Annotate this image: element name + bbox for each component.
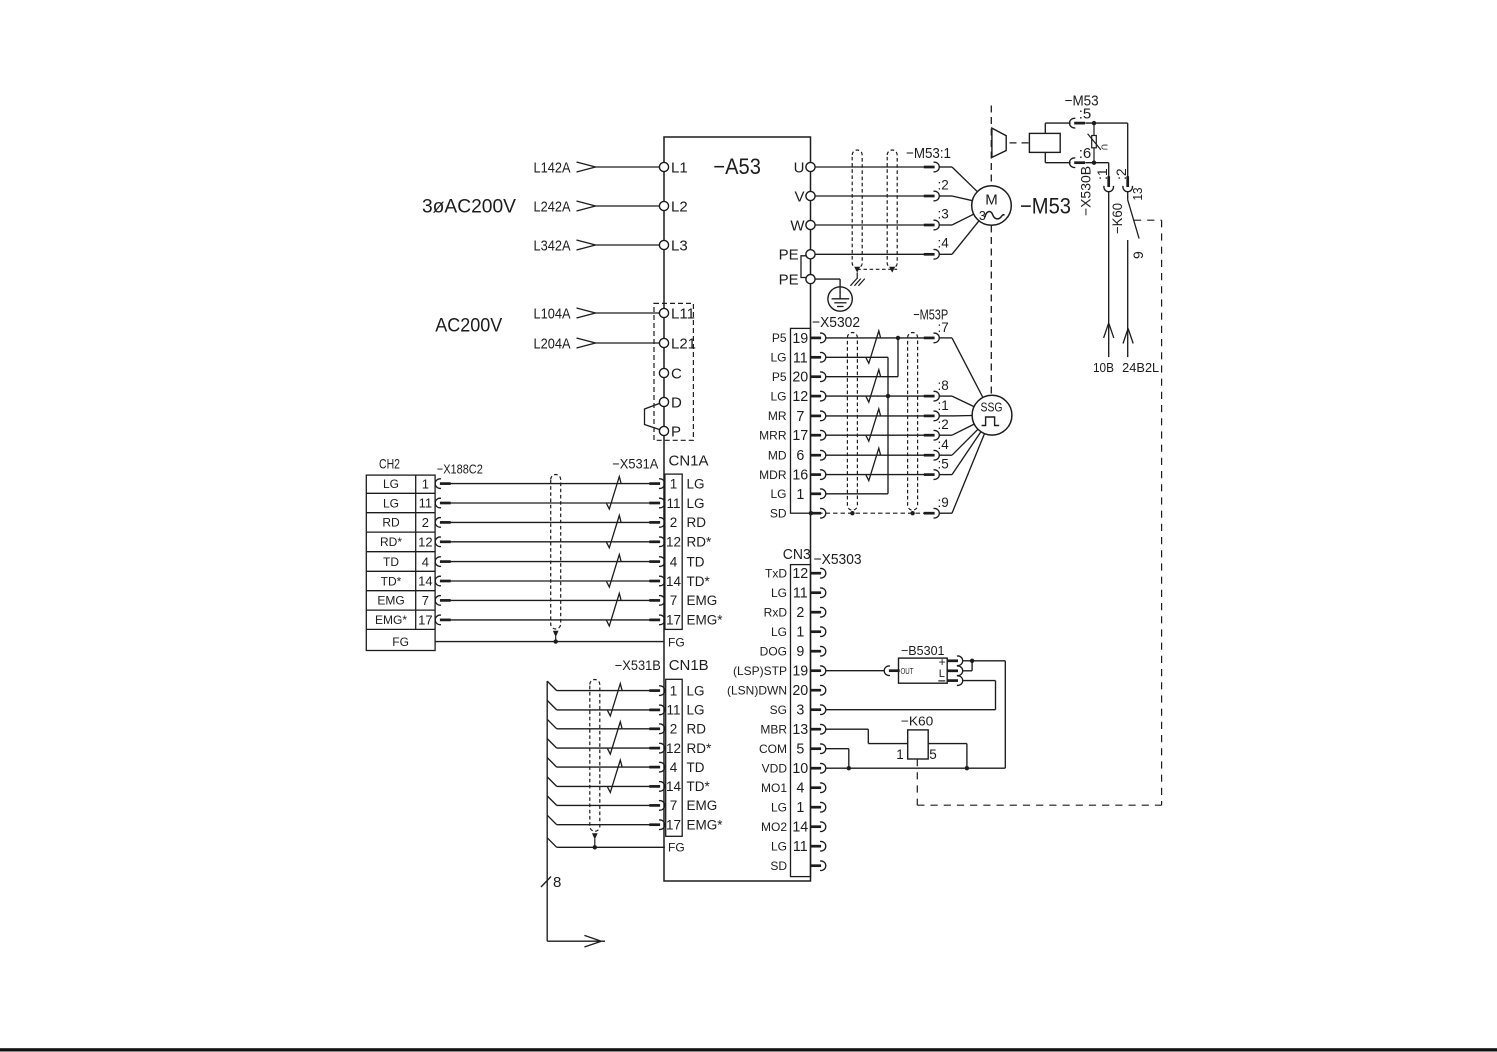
svg-text:RD: RD (687, 722, 707, 737)
svg-text:7: 7 (422, 593, 429, 608)
svg-text:FG: FG (668, 636, 685, 650)
svg-text:7: 7 (796, 409, 804, 425)
svg-text:11: 11 (666, 496, 680, 511)
svg-text::6: :6 (1079, 145, 1092, 162)
svg-text:LG: LG (383, 496, 399, 510)
svg-text:1: 1 (796, 487, 804, 503)
svg-text:12: 12 (792, 389, 808, 405)
svg-text:EMG: EMG (377, 594, 404, 608)
svg-text:L: L (939, 668, 945, 680)
svg-text:20: 20 (792, 370, 808, 386)
svg-text:TD*: TD* (381, 574, 402, 588)
svg-text:−X530B: −X530B (1078, 166, 1094, 216)
svg-text:10: 10 (792, 761, 808, 777)
svg-text:4: 4 (670, 760, 678, 775)
svg-text:3: 3 (796, 703, 804, 719)
svg-text:MRR: MRR (759, 428, 787, 442)
svg-text:−M53: −M53 (1020, 194, 1071, 219)
svg-text:SSG: SSG (981, 401, 1003, 415)
svg-text:9: 9 (1130, 251, 1146, 259)
svg-text:EMG: EMG (687, 798, 718, 813)
svg-text::5: :5 (1079, 106, 1092, 123)
svg-text:L21: L21 (671, 335, 696, 352)
svg-text:MDR: MDR (759, 468, 787, 482)
svg-text:11: 11 (793, 839, 808, 855)
svg-text:M: M (985, 192, 998, 209)
svg-text:19: 19 (792, 331, 808, 347)
svg-text:LG: LG (770, 351, 786, 365)
svg-text:LG: LG (687, 703, 705, 718)
svg-text:RD*: RD* (687, 535, 712, 550)
svg-text:7: 7 (670, 593, 678, 608)
svg-text:17: 17 (418, 613, 432, 628)
svg-text:LG: LG (770, 487, 786, 501)
svg-text:L204A: L204A (534, 336, 571, 353)
svg-text:P5: P5 (772, 370, 787, 384)
svg-text:VDD: VDD (762, 761, 788, 775)
svg-text:RD: RD (382, 516, 400, 530)
svg-text::1: :1 (1094, 168, 1110, 180)
svg-text:5: 5 (929, 747, 937, 762)
svg-text:SD: SD (770, 506, 787, 520)
svg-text:LG: LG (383, 477, 399, 491)
svg-text:L104A: L104A (534, 306, 571, 323)
svg-text:14: 14 (666, 779, 682, 794)
svg-text::4: :4 (938, 236, 950, 251)
svg-text:RD: RD (687, 515, 707, 530)
svg-text:CN1B: CN1B (669, 657, 709, 674)
svg-text:−X5302: −X5302 (812, 314, 860, 331)
svg-text:(LSP)STP: (LSP)STP (733, 664, 787, 678)
svg-text:LG: LG (771, 839, 787, 853)
svg-text:LG: LG (687, 496, 705, 511)
svg-text:L342A: L342A (534, 238, 571, 255)
svg-text:V: V (794, 188, 804, 205)
svg-text:11: 11 (793, 586, 808, 602)
svg-text:CN1A: CN1A (669, 453, 709, 470)
svg-text:EMG: EMG (687, 593, 718, 608)
svg-text:4: 4 (670, 554, 678, 569)
svg-text:MO1: MO1 (761, 781, 787, 795)
svg-text:14: 14 (418, 574, 432, 589)
svg-text:11: 11 (793, 350, 808, 366)
svg-text:L2: L2 (671, 198, 688, 215)
svg-text:LG: LG (771, 586, 787, 600)
svg-text:24B2L: 24B2L (1122, 361, 1159, 375)
svg-text:MR: MR (768, 409, 787, 423)
svg-text:14: 14 (792, 820, 808, 836)
svg-text:P: P (671, 423, 681, 440)
svg-text::5: :5 (938, 457, 949, 472)
svg-text:−X5303: −X5303 (814, 551, 862, 568)
svg-text:−X531B: −X531B (615, 657, 661, 673)
svg-text:2: 2 (422, 515, 429, 530)
svg-text:17: 17 (666, 818, 681, 833)
svg-text:8: 8 (553, 874, 561, 891)
svg-text:−M53P: −M53P (913, 307, 948, 324)
svg-text:1: 1 (796, 800, 804, 816)
svg-text:12: 12 (418, 535, 432, 550)
svg-text:SG: SG (770, 703, 787, 717)
svg-text:−M53:1: −M53:1 (906, 145, 951, 162)
svg-text:10B: 10B (1093, 361, 1114, 375)
svg-text:1: 1 (796, 625, 804, 641)
svg-text:TD: TD (687, 760, 705, 775)
svg-text:MBR: MBR (760, 722, 787, 736)
svg-text:FG: FG (668, 841, 685, 855)
svg-text:MD: MD (768, 448, 787, 462)
svg-text:11: 11 (419, 496, 433, 511)
svg-text:7: 7 (670, 798, 678, 813)
svg-text:U: U (1100, 144, 1110, 150)
svg-text:D: D (671, 394, 682, 411)
svg-text:PE: PE (779, 247, 799, 264)
svg-text:RxD: RxD (764, 605, 788, 619)
svg-text:OUT: OUT (901, 666, 914, 676)
svg-text:CN3: CN3 (783, 546, 811, 563)
svg-text:4: 4 (422, 554, 429, 569)
svg-text:P5: P5 (772, 331, 787, 345)
svg-text:2: 2 (796, 605, 804, 621)
svg-text:19: 19 (792, 664, 808, 680)
svg-text:20: 20 (792, 683, 808, 699)
svg-text:1: 1 (422, 476, 429, 491)
svg-text:FG: FG (392, 635, 409, 649)
svg-text:1: 1 (896, 747, 904, 762)
svg-text:RD*: RD* (380, 535, 402, 549)
svg-text::8: :8 (938, 378, 949, 393)
svg-text:TD: TD (383, 555, 399, 569)
svg-text:4: 4 (796, 781, 804, 797)
svg-text:TxD: TxD (765, 566, 787, 580)
svg-text:AC200V: AC200V (435, 314, 502, 336)
svg-text:L142A: L142A (534, 160, 571, 177)
svg-text:RD*: RD* (687, 741, 712, 756)
svg-text:TD: TD (687, 554, 705, 569)
svg-text:12: 12 (666, 741, 681, 756)
svg-text:LG: LG (687, 476, 705, 491)
svg-text:16: 16 (792, 468, 808, 484)
svg-text:COM: COM (759, 742, 787, 756)
svg-text:LG: LG (771, 800, 787, 814)
svg-text:1: 1 (670, 476, 678, 491)
svg-text:11: 11 (666, 703, 680, 718)
svg-text:MO2: MO2 (761, 820, 787, 834)
svg-text:U: U (794, 159, 805, 176)
svg-text:−X531A: −X531A (612, 456, 659, 472)
svg-text:TD*: TD* (687, 574, 711, 589)
svg-text:2: 2 (670, 722, 678, 737)
svg-text::2: :2 (1113, 168, 1129, 180)
svg-text:12: 12 (666, 535, 681, 550)
svg-text:−X188C2: −X188C2 (437, 462, 483, 477)
svg-text:EMG*: EMG* (375, 613, 407, 627)
svg-text:(LSN)DWN: (LSN)DWN (727, 683, 787, 697)
svg-text:14: 14 (666, 574, 682, 589)
svg-text:SD: SD (770, 859, 787, 873)
svg-text:13: 13 (1130, 188, 1145, 201)
svg-text:L1: L1 (671, 159, 688, 176)
svg-text:9: 9 (796, 644, 804, 660)
svg-text:PE: PE (779, 271, 799, 288)
svg-text:5: 5 (796, 742, 804, 758)
svg-text:LG: LG (770, 389, 786, 403)
svg-text:LG: LG (687, 683, 705, 698)
svg-text:LG: LG (771, 625, 787, 639)
svg-text::2: :2 (938, 177, 949, 192)
svg-text:−K60: −K60 (901, 714, 934, 729)
svg-text::1: :1 (938, 398, 949, 413)
svg-text:1: 1 (670, 683, 678, 698)
svg-text:17: 17 (666, 613, 681, 628)
svg-text:L11: L11 (671, 305, 695, 322)
svg-text:L3: L3 (671, 237, 688, 254)
svg-text:EMG*: EMG* (687, 613, 724, 628)
svg-text:DOG: DOG (760, 644, 787, 658)
svg-text:C: C (671, 365, 682, 382)
svg-text:−K60: −K60 (1109, 203, 1125, 234)
svg-text:L242A: L242A (534, 199, 571, 216)
svg-text:13: 13 (792, 722, 808, 738)
svg-text:−A53: −A53 (713, 154, 761, 179)
svg-text:12: 12 (792, 566, 808, 582)
svg-text::2: :2 (938, 417, 949, 432)
svg-text::4: :4 (938, 437, 950, 452)
svg-text:TD*: TD* (687, 779, 711, 794)
svg-text:3øAC200V: 3øAC200V (422, 195, 516, 217)
svg-text:CH2: CH2 (379, 456, 400, 472)
svg-text::9: :9 (938, 495, 949, 510)
svg-text:EMG*: EMG* (687, 818, 724, 833)
svg-text:2: 2 (670, 515, 678, 530)
svg-text:6: 6 (796, 448, 804, 464)
svg-text:W: W (790, 217, 805, 234)
svg-text::3: :3 (938, 206, 949, 221)
svg-text:17: 17 (792, 428, 808, 444)
